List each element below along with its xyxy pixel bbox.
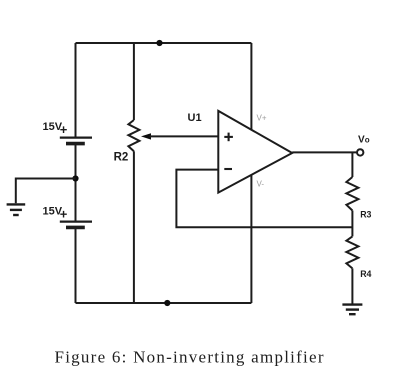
wire wiper to op-amp + input: [150, 135, 219, 137]
wire right rail upper: [351, 152, 353, 177]
ground left: [7, 204, 26, 215]
wire top rail: [76, 42, 252, 44]
svg-text:R2: R2: [114, 152, 129, 164]
node junction left rail: [72, 175, 78, 181]
pin V+ supply wire: [250, 43, 252, 130]
op-amp U1: [218, 111, 292, 193]
svg-text:+: +: [60, 122, 68, 137]
svg-text:R3: R3: [360, 209, 371, 219]
battery V2 15V: [60, 222, 92, 228]
svg-text:Figure 6: Non-inverting amplif: Figure 6: Non-inverting amplifier: [55, 348, 325, 367]
svg-text:V+: V+: [257, 114, 267, 123]
wire R2 top lead: [133, 43, 135, 120]
node junction on bottom rail: [164, 300, 170, 306]
svg-text:R4: R4: [360, 269, 371, 279]
wire left rail upper: [75, 43, 77, 137]
wire - input feedback: [176, 170, 352, 228]
node Vo terminal: [357, 149, 363, 155]
ground right: [342, 305, 362, 315]
svg-text:o: o: [365, 136, 370, 145]
pin V- supply wire: [250, 175, 252, 303]
wire ground branch: [16, 179, 76, 204]
node junction on top rail: [156, 40, 162, 46]
potentiometer R2: [128, 120, 139, 151]
R2 wiper arrow: [141, 133, 151, 139]
wire right rail between R3 and R4: [351, 211, 353, 237]
wire op-amp output: [292, 151, 357, 153]
wire left rail middle: [75, 144, 77, 221]
op-amp - symbol: [224, 168, 232, 170]
svg-text:V-: V-: [257, 180, 265, 189]
resistor R4: [346, 236, 358, 268]
op-amp + symbol: [224, 133, 233, 142]
svg-text:+: +: [60, 207, 68, 222]
wire bottom rail: [76, 302, 252, 304]
resistor R3: [346, 177, 358, 211]
wire left rail lower: [75, 227, 77, 303]
battery V1 15V: [60, 138, 92, 144]
wire R2 bottom lead: [133, 151, 135, 303]
svg-text:U1: U1: [188, 112, 202, 124]
wire right rail lower: [351, 268, 353, 304]
